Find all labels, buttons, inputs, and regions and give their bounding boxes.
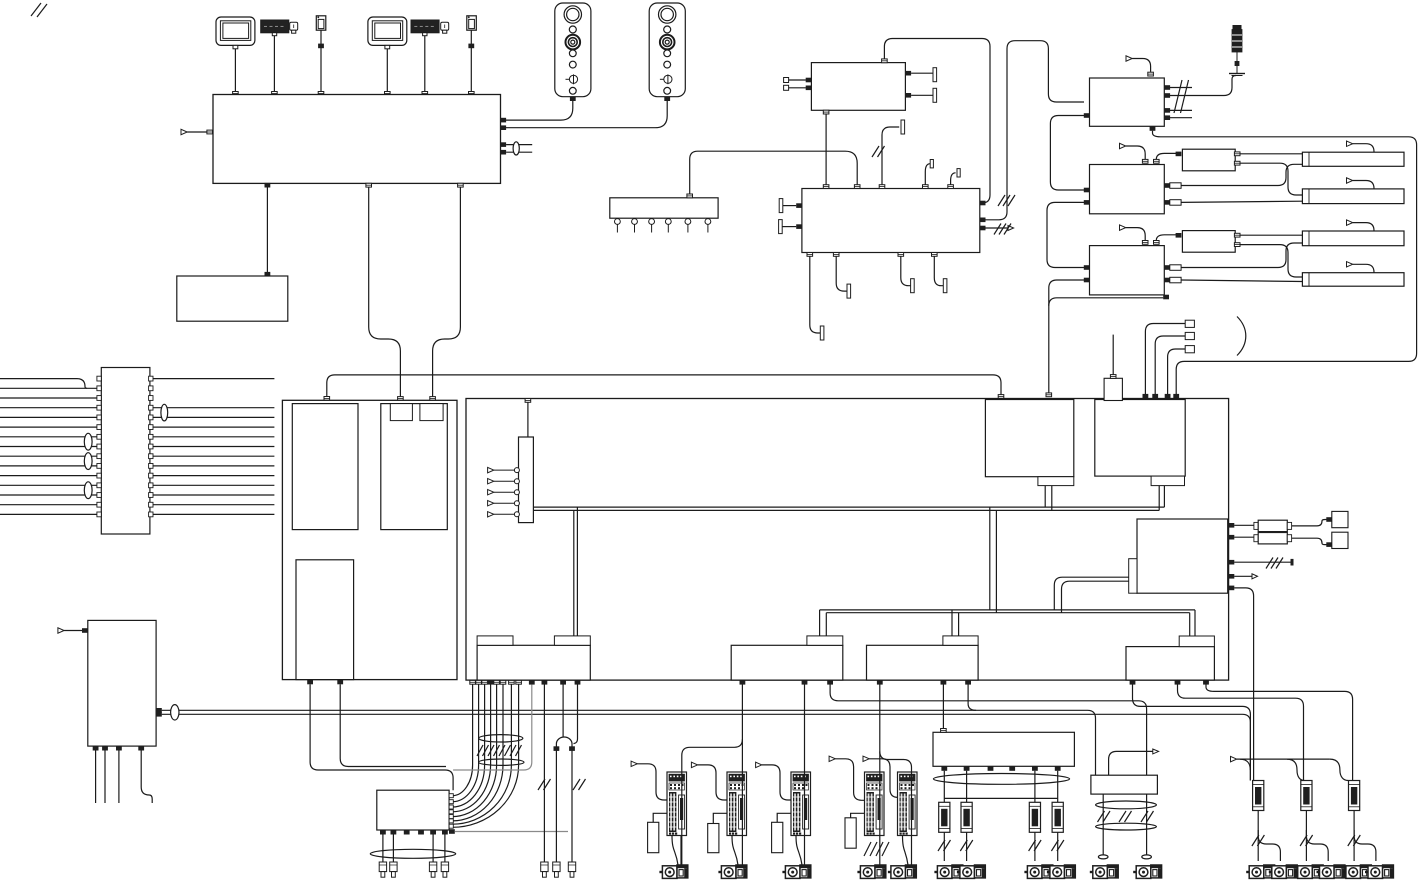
- controller right pin + long field bus pair: [156, 708, 162, 713]
- R3 right connector wire S-curve to bar3: [1164, 243, 1302, 270]
- feed wires over drives: [682, 772, 912, 836]
- brake resistor b1: [939, 802, 950, 832]
- line filter 2: [1254, 533, 1292, 544]
- lift unit box: [1091, 775, 1158, 794]
- wire terminal strip to I/O box top: [690, 151, 858, 194]
- axis1 antenna: [631, 761, 667, 800]
- M2 tab: [943, 636, 978, 645]
- connector strip 1: [261, 20, 289, 36]
- SL3 wire to light bar 4: [1234, 243, 1302, 277]
- PSU box bottom-left of cabinet2: [477, 645, 590, 680]
- line filter 1: [1254, 520, 1292, 531]
- signal tower lamp: [1229, 25, 1245, 76]
- transport motor pair 2: [1295, 865, 1323, 878]
- cabinet1 module A: [292, 404, 358, 530]
- sub-module A (top right): [985, 400, 1073, 477]
- antenna into controller: [58, 628, 88, 633]
- valve terminal box: [933, 732, 1074, 766]
- remote unit R2: [1090, 165, 1165, 214]
- attach wires from distribution: [1054, 577, 1128, 610]
- remote I/O square 2: [1332, 532, 1348, 548]
- monitor HMI-2: [368, 17, 407, 49]
- conveyor motor c4: [1047, 865, 1075, 878]
- camera icon 1: [290, 22, 298, 33]
- controller bottom wires: [93, 746, 153, 803]
- external controller box bottom-left: [88, 620, 156, 746]
- cable tie ellipse 2: [479, 759, 524, 765]
- R1 bottom loop wire around right edge: [1150, 126, 1156, 131]
- light bar 4: [1302, 273, 1404, 287]
- cabinet pin to encoder plug A: [529, 680, 535, 685]
- t3 to motor pair: [1348, 811, 1376, 861]
- cabinet2 bottom: harness pins: [470, 680, 522, 685]
- encoder loop pair: [560, 680, 566, 685]
- light bar 1: [1302, 152, 1404, 166]
- I/O box bottom stub 1: [807, 253, 824, 341]
- SL2 wires to light bar 1: [1234, 152, 1302, 156]
- remote unit R3: [1090, 246, 1165, 295]
- drive module M2: [867, 645, 979, 680]
- brake resistor b2: [961, 802, 972, 832]
- axis3 motor leads: [796, 836, 802, 866]
- axis1 battery: [648, 813, 667, 852]
- cabinet1 module B: [381, 404, 448, 530]
- M1 tab: [807, 636, 843, 645]
- bus cross-link down: [989, 507, 991, 610]
- I/O box bottom stub 3: [898, 253, 914, 293]
- ferrite on right lines: [161, 404, 168, 421]
- brake resistor trunk antenna bottom-right: [1231, 756, 1349, 780]
- corner tick marks: [31, 3, 47, 17]
- wire panel2 to box1: [506, 101, 667, 128]
- I/O box top stub with terminator and hatch: [872, 120, 905, 189]
- wire safety unit bottom to I/O box: [823, 110, 829, 114]
- lift motor 2: [1133, 865, 1161, 878]
- axis4 battery: [845, 813, 865, 848]
- axis4 hatch: [864, 842, 889, 856]
- main cabinet box 1: [282, 400, 457, 679]
- R3 pin2 chain down to cabinet: [1084, 278, 1090, 283]
- relay box right pins: [449, 794, 453, 829]
- wire reader1 to PLC box: [320, 30, 322, 91]
- axis5 motor leads: [903, 836, 909, 866]
- safety relay unit (upper middle box): [811, 63, 905, 111]
- I/O box right wire to remote chain: [980, 218, 986, 223]
- I/O expansion box (lower middle): [802, 189, 980, 253]
- I/O box top stub 3: [948, 169, 960, 189]
- transport resistor t3: [1349, 781, 1360, 811]
- R3 bottom wire to trunk: [1163, 295, 1169, 300]
- terminal block left pins: [97, 376, 101, 517]
- comm module C right-middle: [1137, 519, 1228, 593]
- R2 right connector wires (S-curve to bar1): [1164, 164, 1302, 188]
- wire box1 to main cabinet A: [366, 183, 372, 187]
- module B top wire 2 to port: [1152, 394, 1158, 399]
- main cabinet box 2: [466, 399, 1229, 681]
- servo amplifier axis2: [727, 772, 747, 836]
- servo motor axis2: [718, 865, 746, 878]
- main controller box 1: [213, 95, 501, 184]
- brake resistor b3: [1029, 802, 1040, 832]
- 6 output circles: [615, 219, 711, 233]
- I/O box top stub 2: [923, 160, 934, 189]
- I/O box bottom stub 4: [932, 253, 947, 293]
- long link wire box1-top to cabinet2-top: [327, 375, 1001, 399]
- terminal block right lines to cabinet: [150, 379, 275, 515]
- sub-module B (top right): [1095, 400, 1185, 477]
- box1 bottom pin to aux box: [265, 183, 271, 188]
- ferrite sleeves on left lines: [84, 433, 92, 450]
- axis2 antenna: [691, 762, 727, 800]
- encoder line B with plug: [542, 680, 548, 685]
- box1 right pin pair with ferrite: [500, 142, 532, 155]
- servo motor axis5: [888, 865, 916, 878]
- feed wire to brake unit group: [827, 680, 833, 685]
- valve box bottom pins: [941, 766, 947, 771]
- servo amplifier axis5: [898, 772, 918, 836]
- conveyor motor c3: [1024, 865, 1052, 878]
- card reader icon 2: [467, 16, 477, 30]
- wire safety unit top loop to I/O box right pin: [882, 59, 888, 63]
- servo feed wire axis4/axis5: [877, 680, 883, 685]
- t1 to motor pair: [1252, 811, 1281, 861]
- M3 tab: [1179, 636, 1214, 647]
- servo amplifier axis4: [865, 772, 885, 836]
- servo feed wire axis3: [802, 680, 808, 685]
- bar3 antenna: [1347, 220, 1375, 231]
- operator panel 1: [555, 3, 591, 97]
- R3 right connector wire to bar4: [1164, 277, 1302, 283]
- conveyor motor c2: [957, 865, 985, 878]
- R1 antenna: [1126, 56, 1153, 76]
- servo motor axis4: [857, 865, 885, 878]
- servo amplifier axis3: [791, 772, 811, 836]
- monitor HMI-1: [216, 17, 255, 49]
- terminal strip box with 6 outputs: [610, 198, 718, 218]
- servo motor axis1: [659, 865, 687, 878]
- comm box on module B top: [1104, 378, 1122, 400]
- wire monitor1 to PLC box: [234, 49, 236, 92]
- bar1 antenna: [1347, 141, 1375, 152]
- lower distribution pair: [820, 609, 1195, 611]
- cabinet2 right stub with hatch: [1229, 558, 1294, 569]
- bundle hatch: [477, 745, 522, 756]
- wire reader2 to PLC box: [470, 30, 472, 91]
- remote I/O square 1: [1332, 511, 1348, 527]
- connector strip 2: [411, 20, 439, 36]
- cabinet2 right pin: filter line 1: [1229, 523, 1235, 528]
- transport motor pair 1: [1246, 865, 1274, 878]
- light bar 2: [1302, 189, 1404, 204]
- card reader icon 1: [316, 16, 326, 30]
- R2 right connector wire to bar2: [1164, 200, 1302, 206]
- module B top wire 3 to port: [1165, 394, 1171, 399]
- conveyor motor c1: [934, 865, 962, 878]
- bus drop to PSU tab: [573, 510, 575, 636]
- I/O box bottom stub 2: [833, 253, 850, 299]
- R1 right wires with slashes: [1164, 80, 1224, 120]
- R3 antenna: [1120, 225, 1148, 244]
- feed to valve terminal box: [941, 680, 947, 685]
- remote unit R1: [1090, 78, 1165, 126]
- harness bundle to relay box: [452, 685, 472, 796]
- chain wire R2 to R3: [1084, 200, 1090, 205]
- relay interface box: [377, 790, 449, 830]
- servo amplifier axis1: [667, 772, 687, 836]
- lift unit cables: [1102, 794, 1104, 855]
- drive module M1: [731, 645, 843, 680]
- cabinet2 right arrow stub: [1229, 574, 1258, 579]
- resistor-motor links with hatch: [938, 832, 951, 861]
- terminal block right pins: [149, 376, 153, 517]
- camera icon 2: [441, 22, 449, 33]
- drive module M3: [1126, 647, 1214, 681]
- bar4 antenna: [1347, 262, 1375, 273]
- servo motor axis3: [782, 865, 810, 878]
- M3 bottom wires to right motor trunks: [1130, 680, 1136, 685]
- light bar 3: [1302, 231, 1404, 246]
- transport resistor t2: [1301, 781, 1312, 811]
- wire R1 to signal tower: [1224, 76, 1236, 96]
- safety unit right pins with terminators: [905, 68, 936, 82]
- R2 to lamp driver SL2: [1154, 152, 1182, 164]
- I/O box left terminators: [779, 199, 802, 213]
- wire box1 to main cabinet B: [458, 183, 464, 187]
- chain wire R1 to R2: [1084, 113, 1090, 118]
- axis3 antenna: [756, 762, 791, 800]
- axis3 battery: [772, 813, 791, 852]
- brake resistor b4: [1052, 802, 1063, 832]
- axis2 battery: [708, 813, 727, 852]
- wires from module C down: [307, 680, 313, 685]
- lamp driver SL3: [1182, 231, 1235, 253]
- servo feed wire to axis1/axis2: [740, 680, 746, 685]
- wire strip1 to PLC box: [273, 36, 275, 92]
- relay box bottom pins and plugs: [380, 830, 386, 835]
- cabinet2 right pin: filter line 2: [1229, 535, 1235, 540]
- terminal block left field lines: [0, 379, 101, 515]
- sub-module A tab: [1038, 477, 1074, 486]
- lift unit antenna: [1109, 749, 1159, 775]
- lift motor 1: [1090, 865, 1118, 878]
- wire strip2 to PLC box: [424, 36, 426, 92]
- I/O box right arrow stub: [980, 224, 1014, 235]
- axis5 antenna: [863, 756, 898, 797]
- t2 to motor pair: [1300, 811, 1328, 861]
- wire panel1 to box1: [506, 101, 573, 120]
- R2 antenna: [1120, 143, 1148, 163]
- brake resistor feeds: [943, 771, 945, 803]
- PSU tab 1: [477, 636, 513, 645]
- bar2 antenna: [1347, 178, 1375, 189]
- antenna left of box1: [181, 129, 213, 134]
- transport resistor t1: [1253, 781, 1264, 811]
- cable tie ellipse 1: [479, 735, 523, 742]
- brace mark: [1237, 317, 1246, 356]
- rack input ports: [488, 467, 520, 517]
- cabinet2 right feed to brake resistors: [1229, 586, 1235, 591]
- axis1 motor leads: [672, 836, 678, 866]
- field terminal block: [101, 368, 150, 535]
- module B slot 2: [420, 404, 443, 421]
- cabinet1 module C (power supply): [296, 560, 354, 680]
- comm module C side attachment: [1129, 559, 1137, 594]
- transport motor pair 3: [1343, 865, 1371, 878]
- PSU tab 2: [554, 636, 590, 645]
- CPU connector rack inside cabinet2: [519, 437, 534, 523]
- operator panel 2: [649, 3, 685, 97]
- module B slot 1: [390, 404, 412, 421]
- feed wire into bottom bus: [965, 680, 971, 685]
- axis4 antenna: [829, 756, 864, 800]
- module B top wire 1 to port: [1143, 394, 1149, 399]
- internal bus pair: [533, 506, 1164, 508]
- I/O squares left of safety unit: [784, 78, 812, 83]
- cable tie under valve box: [933, 774, 1069, 785]
- sub-module B tab: [1151, 476, 1184, 486]
- lamp driver SL2: [1182, 149, 1235, 171]
- aux box below box1: [177, 276, 288, 321]
- SL2 wire to light bar 2: [1234, 161, 1302, 195]
- axis2 motor leads: [732, 836, 738, 866]
- wire monitor2 to PLC box: [386, 49, 388, 92]
- SL3 wire to light bar 3: [1234, 233, 1302, 237]
- R3 to lamp driver SL3: [1154, 233, 1182, 244]
